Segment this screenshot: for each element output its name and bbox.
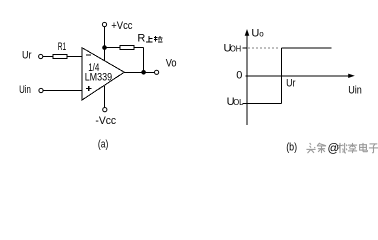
svg-text:LM339: LM339 [85,71,112,83]
svg-text:(a): (a) [98,139,108,151]
svg-text:@: @ [328,143,340,155]
svg-text:Ur: Ur [22,50,32,62]
svg-text:0: 0 [236,70,242,82]
svg-text:o: o [259,30,264,39]
svg-text:(b): (b) [286,141,297,153]
svg-text:Ur: Ur [286,78,296,90]
svg-text:R: R [137,33,145,45]
svg-text:Uin: Uin [19,84,31,96]
svg-text:OL: OL [233,98,244,107]
svg-text:Uin: Uin [348,85,362,97]
svg-text:U: U [251,27,259,39]
svg-text:-Vcc: -Vcc [95,115,116,127]
svg-text:+Vcc: +Vcc [111,20,133,32]
svg-text:R1: R1 [58,41,66,53]
svg-text:OH: OH [230,45,241,54]
svg-text:Vo: Vo [166,57,177,69]
